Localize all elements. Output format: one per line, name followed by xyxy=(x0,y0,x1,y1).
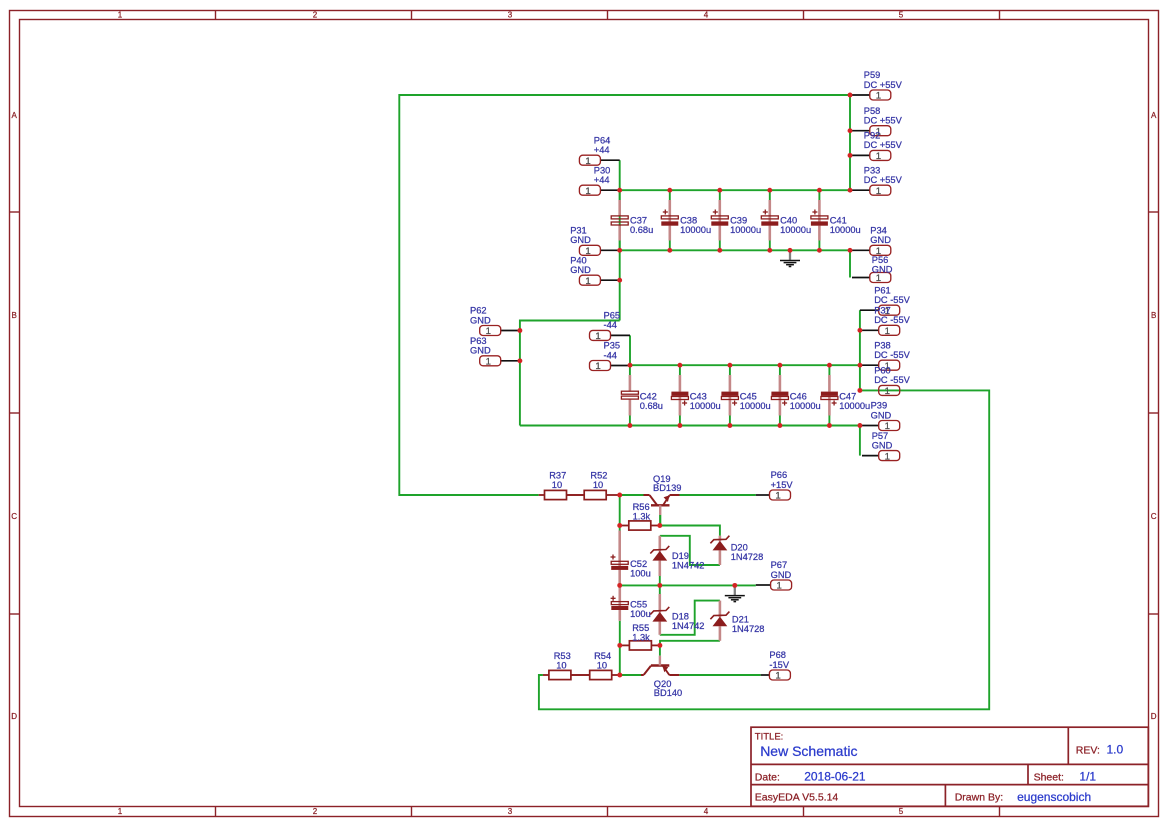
svg-text:DC -55V: DC -55V xyxy=(874,295,910,305)
capacitor C41 xyxy=(811,200,828,241)
svg-text:1: 1 xyxy=(585,156,590,167)
frame column numbers xyxy=(118,11,904,817)
wire capacitor stub xyxy=(619,190,621,200)
svg-text:D: D xyxy=(1151,712,1157,721)
port P67 GND xyxy=(756,560,792,592)
svg-text:P67: P67 xyxy=(771,560,788,570)
wire R55 right junction to Q20 base xyxy=(659,645,661,655)
svg-text:1N4742: 1N4742 xyxy=(672,561,705,571)
wire D18 bottom to D21 top xyxy=(660,601,720,635)
svg-text:BD140: BD140 xyxy=(654,688,682,698)
svg-text:REV:: REV: xyxy=(1076,744,1100,756)
port P63 GND xyxy=(470,336,520,368)
wire from +44 column to P62/P63 column xyxy=(520,321,620,426)
svg-text:+44: +44 xyxy=(594,145,610,155)
port P61 DC -55V xyxy=(860,285,911,317)
svg-text:P59: P59 xyxy=(864,70,881,80)
port P92 DC +55V xyxy=(852,131,903,163)
svg-text:GND: GND xyxy=(470,346,491,356)
title block text xyxy=(755,732,1124,804)
port P38 DC -55V xyxy=(860,340,911,372)
wire capacitor stub xyxy=(719,190,721,200)
port P34 GND xyxy=(852,226,891,258)
zener diode D19 1N4742 xyxy=(650,536,669,576)
svg-text:TITLE:: TITLE: xyxy=(755,732,784,743)
svg-text:1: 1 xyxy=(885,386,890,397)
port P66 +15V xyxy=(756,470,794,502)
svg-text:1N4742: 1N4742 xyxy=(672,621,705,631)
svg-text:GND: GND xyxy=(872,264,893,274)
svg-text:5: 5 xyxy=(899,11,904,20)
port P68 -15V xyxy=(761,650,791,682)
resistor R55 xyxy=(620,641,660,650)
svg-text:DC +55V: DC +55V xyxy=(864,80,903,90)
svg-text:P33: P33 xyxy=(864,165,881,175)
svg-text:10000u: 10000u xyxy=(780,225,811,235)
svg-text:-15V: -15V xyxy=(769,660,789,670)
wire Q19 collector segment xyxy=(620,494,644,496)
resistor R53 xyxy=(543,670,590,679)
wire D19 bottom stub xyxy=(659,576,661,585)
svg-text:P62: P62 xyxy=(470,306,487,316)
svg-text:DC +55V: DC +55V xyxy=(864,175,903,185)
svg-text:GND: GND xyxy=(470,315,491,325)
capacitor C38 xyxy=(661,200,678,241)
wire R55 left column down to Q20 xyxy=(619,645,621,675)
svg-text:R54: R54 xyxy=(594,651,611,661)
wire D19 top to D20 bottom xyxy=(660,536,720,565)
svg-text:EasyEDA V5.5.14: EasyEDA V5.5.14 xyxy=(755,791,839,803)
wire Q19 base column xyxy=(619,495,621,526)
ground symbol at upper GND bus xyxy=(780,250,800,266)
svg-text:DC -55V: DC -55V xyxy=(874,375,910,385)
capacitor C39 xyxy=(711,200,728,241)
svg-text:3: 3 xyxy=(508,11,513,20)
svg-text:3: 3 xyxy=(508,807,513,816)
svg-text:10: 10 xyxy=(597,660,607,670)
wire GND middle bus xyxy=(620,584,756,586)
svg-text:1: 1 xyxy=(876,91,881,102)
wire GND lower bus xyxy=(520,425,860,427)
svg-text:10000u: 10000u xyxy=(740,401,771,411)
port P65 -44 xyxy=(590,311,631,343)
port P57 GND xyxy=(862,431,900,463)
svg-text:C47: C47 xyxy=(839,391,856,401)
resistor R56 xyxy=(620,521,660,530)
svg-text:1: 1 xyxy=(118,11,123,20)
svg-text:+44: +44 xyxy=(594,175,610,185)
wire P64/+44 left vertical xyxy=(619,160,621,320)
svg-text:-44: -44 xyxy=(604,350,617,360)
resistor R52 xyxy=(567,490,620,499)
svg-text:P35: P35 xyxy=(604,341,621,351)
svg-text:GND: GND xyxy=(570,265,591,275)
svg-text:1: 1 xyxy=(118,807,123,816)
svg-text:0.68u: 0.68u xyxy=(640,401,663,411)
svg-text:1: 1 xyxy=(585,186,590,197)
junction dots xyxy=(517,93,862,678)
svg-text:1N4728: 1N4728 xyxy=(732,624,765,634)
zener diode D18 1N4742 xyxy=(650,594,669,635)
port P35 -44 xyxy=(590,341,631,373)
svg-text:R37: R37 xyxy=(549,470,566,480)
wire Q19 emitter to P66 xyxy=(680,494,756,496)
svg-text:1: 1 xyxy=(775,671,780,682)
svg-text:10: 10 xyxy=(556,660,566,670)
svg-text:P58: P58 xyxy=(864,106,881,116)
wire +55V top loop from P59 down-left to R37 row xyxy=(399,95,850,495)
resistor R37 xyxy=(539,490,585,499)
wire capacitor stub xyxy=(679,365,681,375)
svg-text:10000u: 10000u xyxy=(680,225,711,235)
svg-text:1: 1 xyxy=(585,276,590,287)
svg-text:C43: C43 xyxy=(690,391,707,401)
svg-text:1: 1 xyxy=(876,186,881,197)
svg-text:1: 1 xyxy=(775,491,780,502)
title block xyxy=(751,727,1148,806)
svg-text:P34: P34 xyxy=(870,226,887,236)
ground symbol at middle GND bus xyxy=(725,585,745,601)
wire R56 column down to C52 xyxy=(619,526,621,531)
zener diode D21 1N4728 xyxy=(710,601,729,641)
svg-text:D21: D21 xyxy=(732,615,749,625)
port P58 DC +55V xyxy=(852,106,903,137)
svg-text:P40: P40 xyxy=(570,255,587,265)
svg-text:C38: C38 xyxy=(680,215,697,225)
svg-text:Sheet:: Sheet: xyxy=(1034,771,1064,783)
svg-text:P60: P60 xyxy=(874,366,891,376)
port P40 GND xyxy=(570,255,620,287)
svg-text:R52: R52 xyxy=(590,470,607,480)
capacitor C37 xyxy=(611,200,628,241)
svg-text:1: 1 xyxy=(876,151,881,162)
svg-text:New Schematic: New Schematic xyxy=(760,743,857,759)
svg-text:P66: P66 xyxy=(771,470,788,480)
svg-text:C42: C42 xyxy=(640,391,657,401)
wire D18 top stub xyxy=(659,585,661,594)
svg-text:100u: 100u xyxy=(630,569,651,579)
svg-text:D18: D18 xyxy=(672,612,689,622)
capacitor C46 xyxy=(771,375,788,416)
port P31 GND xyxy=(570,226,620,258)
svg-text:1.3k: 1.3k xyxy=(633,512,651,522)
svg-text:1: 1 xyxy=(885,451,890,462)
svg-text:P38: P38 xyxy=(874,340,891,350)
svg-text:D19: D19 xyxy=(672,551,689,561)
svg-text:2: 2 xyxy=(313,807,318,816)
svg-text:1: 1 xyxy=(595,331,600,342)
wire C55 bottom to R55 junction xyxy=(619,621,621,646)
svg-text:1: 1 xyxy=(777,581,782,592)
svg-text:1: 1 xyxy=(876,273,881,284)
svg-text:1.3k: 1.3k xyxy=(632,632,650,642)
svg-text:C55: C55 xyxy=(630,600,647,610)
capacitor C45 xyxy=(721,375,738,416)
wire capacitor stub xyxy=(769,190,771,200)
svg-text:B: B xyxy=(12,311,17,320)
zener diode D20 1N4728 xyxy=(710,536,729,565)
svg-text:C52: C52 xyxy=(630,559,647,569)
wire +55V capacitor top bus xyxy=(620,189,850,191)
transistor Q20 BD140 (PNP) xyxy=(641,656,679,675)
port P37 DC -55V xyxy=(860,306,911,338)
wire DC-55V right trunk xyxy=(859,310,861,390)
wire GND drop to P57 xyxy=(859,426,861,456)
port P39 GND xyxy=(862,401,900,433)
svg-text:P64: P64 xyxy=(594,135,611,145)
svg-text:GND: GND xyxy=(771,570,792,580)
svg-text:2: 2 xyxy=(313,11,318,20)
svg-text:1N4728: 1N4728 xyxy=(731,552,764,562)
svg-text:GND: GND xyxy=(871,410,892,420)
port P30 +44 xyxy=(579,165,619,197)
port P62 GND xyxy=(470,306,520,338)
svg-text:P92: P92 xyxy=(864,131,881,141)
svg-text:C45: C45 xyxy=(740,391,757,401)
svg-text:4: 4 xyxy=(704,11,709,20)
svg-text:2018-06-21: 2018-06-21 xyxy=(804,770,866,784)
svg-text:P63: P63 xyxy=(470,336,487,346)
svg-text:C40: C40 xyxy=(780,215,797,225)
svg-text:10000u: 10000u xyxy=(790,401,821,411)
svg-text:DC -55V: DC -55V xyxy=(874,315,910,325)
capacitor C52 xyxy=(611,531,629,585)
capacitor C55 xyxy=(611,587,629,621)
svg-text:A: A xyxy=(12,111,18,120)
svg-text:10000u: 10000u xyxy=(730,225,761,235)
wire capacitor stub xyxy=(828,365,830,375)
wire Q20 emitter to P68 xyxy=(679,674,760,676)
svg-text:GND: GND xyxy=(870,235,891,245)
port P59 DC +55V xyxy=(852,70,903,102)
wire Q20 collector segment xyxy=(620,674,641,676)
resistor R54 xyxy=(571,670,620,679)
capacitor C42 xyxy=(621,375,638,416)
svg-text:4: 4 xyxy=(704,807,709,816)
svg-text:P68: P68 xyxy=(769,650,786,660)
svg-text:10000u: 10000u xyxy=(690,401,721,411)
svg-text:GND: GND xyxy=(570,235,591,245)
svg-text:eugenscobich: eugenscobich xyxy=(1017,790,1091,804)
port P56 GND xyxy=(852,255,893,284)
svg-text:R53: R53 xyxy=(554,651,571,661)
svg-text:B: B xyxy=(1151,311,1156,320)
svg-text:P37: P37 xyxy=(874,306,891,316)
svg-text:DC -55V: DC -55V xyxy=(874,350,910,360)
wire GND upper bus xyxy=(620,249,850,251)
svg-text:A: A xyxy=(1151,111,1157,120)
svg-text:C39: C39 xyxy=(730,215,747,225)
wire capacitor stub xyxy=(779,365,781,375)
wire capacitor stub xyxy=(729,365,731,375)
wire D21 bottom to R55 right junction xyxy=(660,641,720,646)
svg-text:P39: P39 xyxy=(871,401,888,411)
svg-text:1: 1 xyxy=(595,361,600,372)
svg-text:10: 10 xyxy=(552,480,562,490)
wire R56 to D20 top xyxy=(660,526,720,536)
svg-text:P30: P30 xyxy=(594,165,611,175)
svg-text:-44: -44 xyxy=(604,320,617,330)
svg-text:100u: 100u xyxy=(630,609,651,619)
svg-text:10000u: 10000u xyxy=(839,401,870,411)
svg-text:C37: C37 xyxy=(630,215,647,225)
wire capacitor stub xyxy=(629,365,631,375)
svg-text:C: C xyxy=(11,512,17,521)
svg-text:0.68u: 0.68u xyxy=(630,225,653,235)
svg-text:GND: GND xyxy=(872,440,893,450)
wire capacitor stub xyxy=(818,190,820,200)
svg-text:R56: R56 xyxy=(633,502,650,512)
svg-text:P31: P31 xyxy=(570,226,587,236)
svg-text:D: D xyxy=(11,712,17,721)
port P64 +44 xyxy=(579,135,619,167)
wire from P60 right and around bottom to R53 xyxy=(539,390,989,709)
svg-text:+15V: +15V xyxy=(771,480,794,490)
svg-text:BD139: BD139 xyxy=(653,483,681,493)
svg-text:Drawn By:: Drawn By: xyxy=(955,791,1003,803)
svg-text:P57: P57 xyxy=(872,431,889,441)
port P33 DC +55V xyxy=(852,165,903,197)
transistor Q19 BD139 (NPN) xyxy=(644,495,680,526)
frame row letters xyxy=(11,111,1157,721)
svg-text:C41: C41 xyxy=(830,215,847,225)
svg-text:1: 1 xyxy=(885,326,890,337)
svg-text:1.0: 1.0 xyxy=(1107,743,1124,757)
capacitor C40 xyxy=(761,200,778,241)
svg-text:P61: P61 xyxy=(874,285,891,295)
svg-text:DC +55V: DC +55V xyxy=(864,140,903,150)
svg-text:P65: P65 xyxy=(604,311,621,321)
wire -44 capacitor bus xyxy=(630,364,860,366)
capacitor C43 xyxy=(671,375,688,416)
svg-text:10000u: 10000u xyxy=(830,225,861,235)
svg-text:1: 1 xyxy=(486,357,491,368)
svg-text:5: 5 xyxy=(899,807,904,816)
wire GND drop to P56 xyxy=(849,250,851,277)
svg-text:C46: C46 xyxy=(790,391,807,401)
wire +55V right trunk xyxy=(849,95,851,190)
wire capacitor stub xyxy=(669,190,671,200)
svg-text:D20: D20 xyxy=(731,543,748,553)
svg-text:C: C xyxy=(1151,512,1157,521)
svg-text:Date:: Date: xyxy=(755,771,780,783)
svg-text:DC +55V: DC +55V xyxy=(864,116,903,126)
port P60 DC -55V xyxy=(874,366,910,398)
wire P65 drop to -44 bus xyxy=(629,335,631,365)
capacitor C47 xyxy=(821,375,838,416)
svg-text:10: 10 xyxy=(593,480,603,490)
svg-text:1/1: 1/1 xyxy=(1079,770,1096,784)
